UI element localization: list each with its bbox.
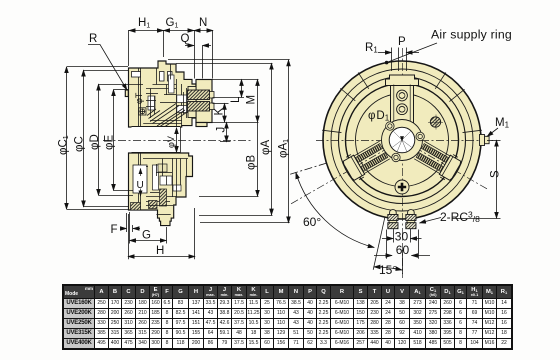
air inlet fitting 2-RC3/8 right — [406, 210, 416, 229]
rim tick marks — [322, 72, 482, 132]
svg-text:M: M — [246, 95, 258, 105]
leader 2-RC3/8 — [420, 218, 442, 224]
air port fitting upper (hatched) — [188, 90, 210, 100]
dim phiD — [99, 84, 143, 86]
side view internal section lines — [131, 64, 189, 215]
svg-text:R1: R1 — [365, 42, 378, 55]
air port nut heads — [210, 92, 215, 110]
60 deg boundary radial (dash-dot) — [290, 163, 326, 174]
60 deg angle dimension arc — [296, 173, 374, 248]
bottom plug with cross slot — [395, 180, 409, 194]
chuck face circle — [346, 84, 459, 197]
jaw axis 150deg — [289, 140, 402, 205]
svg-text:2-RC3/8: 2-RC3/8 — [440, 210, 480, 225]
dim phiA — [176, 63, 273, 65]
svg-text:N: N — [199, 17, 207, 29]
svg-text:Q: Q — [181, 33, 190, 45]
svg-text:φB: φB — [246, 155, 258, 170]
svg-text:φE: φE — [104, 135, 116, 150]
15 deg boundary line — [373, 217, 385, 270]
dimension H1 — [129, 30, 164, 32]
dim phiB — [199, 196, 259, 198]
sealing plug upper right (hatched) — [428, 115, 443, 130]
lower-left jaw — [341, 139, 391, 183]
air port fitting lower (hatched) — [188, 102, 210, 112]
dimension 60 — [386, 230, 388, 259]
dimension 30 — [393, 229, 395, 243]
jaw axis 30deg — [402, 140, 489, 190]
mounting lug R — [125, 90, 128, 97]
15 deg arc — [374, 267, 402, 270]
wedge plunger diagonals — [150, 104, 176, 122]
svg-text:φC: φC — [74, 136, 86, 152]
svg-text:H: H — [156, 245, 164, 257]
svg-text:60: 60 — [396, 243, 410, 257]
dim M — [257, 79, 259, 122]
dimension G1 — [164, 30, 195, 32]
air supply ring lower step — [196, 123, 207, 127]
svg-text:φV: φV — [166, 136, 176, 148]
dim K — [224, 103, 226, 122]
dim L — [241, 79, 243, 97]
svg-text:S: S — [490, 170, 502, 178]
dimension N — [194, 30, 213, 32]
dimension Q — [185, 45, 194, 47]
svg-text:φC1: φC1 — [58, 135, 71, 155]
front view labels — [303, 28, 512, 278]
dim G — [129, 212, 131, 244]
vertical reference below — [402, 250, 404, 274]
leader: air supply ring — [387, 43, 437, 62]
lower-right jaw — [413, 139, 463, 183]
horizontal centreline — [316, 140, 493, 142]
front view: outer body — [323, 61, 481, 219]
svg-text:15°: 15° — [379, 263, 397, 277]
top jaw block — [386, 75, 419, 125]
hub — [382, 120, 423, 161]
ring inner circle — [331, 69, 473, 211]
hub screws — [384, 120, 425, 163]
dim F — [121, 228, 127, 230]
leader R — [88, 45, 127, 91]
svg-text:φD: φD — [89, 134, 101, 150]
centre bore (white band) — [132, 127, 181, 154]
svg-text:Air supply ring: Air supply ring — [431, 28, 512, 42]
dim J — [226, 122, 228, 142]
chuck body circle — [339, 77, 466, 204]
air supply ring block — [196, 80, 212, 123]
svg-text:60°: 60° — [303, 215, 321, 229]
svg-text:G: G — [142, 230, 151, 242]
distributor shaft between body and ring — [188, 87, 196, 118]
centreline of side view — [103, 140, 252, 142]
centrelines — [289, 48, 493, 278]
vertical centreline — [402, 48, 404, 278]
port hole edges / P extension lines — [391, 48, 393, 72]
side view: chuck body upper half section — [125, 61, 212, 226]
svg-text:R: R — [89, 33, 97, 45]
svg-text:U: U — [137, 180, 144, 191]
dimension H1 extension lines — [128, 30, 130, 66]
svg-text:H1: H1 — [138, 17, 150, 30]
centre hole — [389, 127, 415, 153]
right stacked dims: M / phiB — [213, 79, 259, 81]
side view dimension labels — [58, 17, 291, 257]
dim phiC — [84, 70, 129, 72]
svg-text:φA1: φA1 — [278, 139, 291, 158]
eyebolt hole M1 boss — [480, 135, 490, 146]
svg-text:G1: G1 — [166, 17, 179, 30]
dimension P — [378, 52, 392, 54]
svg-text:L: L — [230, 96, 242, 103]
dim phiV arrows — [176, 128, 178, 153]
svg-text:P: P — [398, 36, 406, 48]
svg-text:φT: φT — [134, 92, 144, 104]
svg-text:φA: φA — [260, 140, 272, 155]
lower half internals — [143, 158, 188, 160]
air inlet fitting 2-RC3/8 left — [388, 210, 398, 229]
leader M1 — [487, 128, 498, 137]
jaw slide boundary circle — [356, 94, 449, 187]
dim H — [128, 214, 130, 259]
svg-text:F: F — [111, 224, 118, 236]
svg-text:30: 30 — [395, 230, 409, 244]
jaw mounting screw 1 — [397, 90, 408, 115]
svg-text:J: J — [216, 127, 228, 133]
side view: chuck body lower half section — [129, 153, 193, 226]
specification table — [62, 284, 513, 350]
svg-text:M1: M1 — [495, 117, 510, 130]
svg-text:K: K — [214, 108, 226, 116]
dimension S — [487, 140, 501, 142]
dim phiE — [114, 89, 129, 91]
dim phiC1 — [67, 66, 128, 68]
air supply ring outer circle — [323, 61, 481, 219]
dim phiA1 — [168, 59, 290, 61]
